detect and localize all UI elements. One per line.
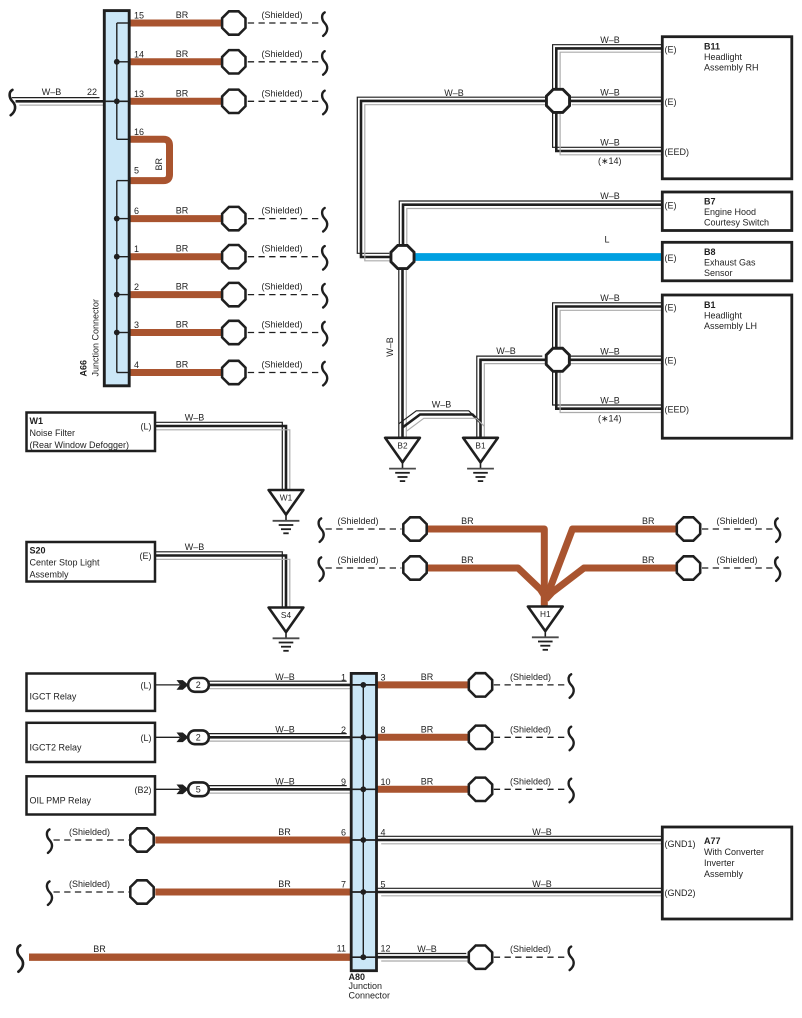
B11 box text — [665, 42, 759, 158]
svg-text:BR: BR — [642, 555, 655, 565]
svg-text:W–B: W–B — [600, 138, 620, 148]
wire W-B splice to B11 pin (E) middle — [564, 97, 670, 105]
wire BR A66 pin 6 to shield octagon — [130, 215, 224, 222]
svg-text:BR: BR — [421, 776, 434, 786]
svg-text:Headlight: Headlight — [704, 311, 743, 321]
labels A80 pin 10 right — [381, 776, 552, 787]
wire BR A66 pin 3 to shield octagon — [130, 329, 224, 336]
svg-text:(Shielded): (Shielded) — [262, 244, 303, 254]
component B8 Exhaust Gas Sensor — [662, 242, 792, 280]
svg-text:(L): (L) — [141, 681, 152, 691]
svg-text:W–B: W–B — [600, 293, 620, 303]
A80 connector name label — [349, 972, 391, 1001]
svg-text:Junction: Junction — [349, 981, 383, 991]
svg-text:W1: W1 — [30, 416, 44, 426]
labels A80 pin 7 left — [69, 879, 346, 890]
svg-text:W–B: W–B — [600, 88, 620, 98]
svg-text:W1: W1 — [280, 493, 293, 503]
wire BR shielded top-right to ground H1 — [545, 529, 678, 600]
component B1 Headlight Assembly LH — [662, 295, 792, 438]
svg-text:IGCT2 Relay: IGCT2 Relay — [30, 743, 83, 753]
wire BR shielded bottom-right to ground H1 — [546, 568, 678, 599]
svg-text:(E): (E) — [665, 303, 677, 313]
labels A66 pin 3 — [134, 320, 303, 331]
svg-text:Center Stop Light: Center Stop Light — [30, 558, 101, 568]
ground S4 — [269, 608, 304, 651]
A77 box text — [665, 836, 765, 898]
wire break squiggle bottom BR — [17, 945, 23, 971]
svg-text:(Rear Window Defogger): (Rear Window Defogger) — [30, 440, 130, 450]
labels A66 pin 2 — [134, 282, 303, 293]
svg-text:W–B: W–B — [417, 944, 437, 954]
svg-text:W–B: W–B — [532, 879, 552, 889]
label L wire B8 — [604, 235, 609, 245]
wire W-B trunk from splice to B11 splice — [357, 97, 556, 261]
svg-text:Connector: Connector — [349, 991, 391, 1001]
svg-text:(L): (L) — [141, 733, 152, 743]
svg-text:BR: BR — [461, 516, 474, 526]
svg-text:BR: BR — [176, 49, 189, 59]
junction connector A66 — [104, 11, 129, 386]
shield drain dashed continuation A66 pin 3 — [248, 322, 327, 346]
svg-text:W–B: W–B — [600, 347, 620, 357]
shield drain dashed continuation A66 pin 2 — [248, 284, 327, 308]
B1 box text — [665, 300, 758, 415]
svg-text:(EED): (EED) — [665, 147, 690, 157]
svg-text:W–B: W–B — [42, 87, 62, 97]
svg-text:L: L — [604, 235, 609, 245]
svg-text:B8: B8 — [704, 247, 716, 257]
inline connector arrow OIL PMP Relay — [177, 785, 189, 795]
wire W-B A80 pin 5 to A77 — [374, 888, 670, 896]
B7 box text — [665, 197, 770, 228]
svg-text:2: 2 — [341, 725, 346, 735]
shield drain dashed continuation A66 pin 15 — [248, 12, 327, 36]
component W1 Noise Filter — [27, 413, 156, 452]
wire BR A66 pin 4 to shield octagon — [130, 369, 224, 376]
svg-text:BR: BR — [176, 320, 189, 330]
shield drain dashed continuation A66 pin 4 — [248, 362, 327, 386]
svg-text:(Shielded): (Shielded) — [510, 944, 551, 954]
svg-text:BR: BR — [176, 244, 189, 254]
A66 internal bus (pins 5-4) — [116, 181, 118, 373]
svg-text:15: 15 — [134, 11, 144, 21]
wire BR A80 pin 3 to shield octagon — [377, 681, 470, 688]
svg-text:B1: B1 — [475, 440, 486, 450]
labels H1 row y=529 — [338, 516, 758, 526]
svg-text:BR: BR — [278, 827, 291, 837]
svg-text:W–B: W–B — [275, 776, 295, 786]
svg-text:BR: BR — [93, 944, 106, 954]
svg-text:8: 8 — [381, 725, 386, 735]
wire W-B IGCT2 Relay to A80 pin 2 — [200, 734, 354, 742]
labels A66 pin 6 — [134, 206, 303, 217]
svg-text:W–B: W–B — [385, 337, 395, 357]
shield braid octagon A66 pin 14 — [222, 50, 245, 73]
S20 box text — [30, 546, 152, 580]
svg-text:BR: BR — [176, 282, 189, 292]
IGCT Relay box text — [30, 681, 152, 702]
svg-text:(E): (E) — [665, 97, 677, 107]
svg-text:W–B: W–B — [185, 413, 205, 423]
shield braid octagon A80 pin 8 — [469, 726, 492, 749]
labels B1 wires — [598, 293, 622, 424]
svg-text:Exhaust Gas: Exhaust Gas — [704, 258, 756, 268]
svg-text:5: 5 — [196, 785, 201, 795]
wire W-B splice to B11 pin (E) top — [553, 45, 670, 99]
svg-text:W–B: W–B — [444, 88, 464, 98]
IGCT2 Relay box text — [30, 733, 152, 752]
svg-text:S20: S20 — [30, 546, 46, 556]
shield dashed continuation left y=568 — [319, 557, 402, 581]
svg-text:Assembly RH: Assembly RH — [704, 62, 759, 72]
svg-text:11: 11 — [337, 944, 346, 954]
shield braid octagon A66 pin 3 — [222, 321, 245, 344]
svg-text:BR: BR — [154, 158, 164, 171]
component OIL PMP Relay — [27, 776, 156, 814]
svg-text:(∗14): (∗14) — [598, 414, 622, 424]
ground H1 — [528, 607, 563, 650]
svg-text:W–B: W–B — [496, 346, 516, 356]
wire L (blue) splice to B8 pin (E) — [408, 253, 666, 261]
svg-text:BR: BR — [176, 10, 189, 20]
labels H1 row y=568 — [338, 555, 758, 565]
svg-text:6: 6 — [341, 828, 346, 838]
A80 pin crossing lines — [351, 685, 376, 957]
A66 bus junction dots — [114, 59, 120, 336]
labels wire IGCT2 Relay — [275, 724, 346, 735]
shield braid octagon A80 pin 6 — [130, 828, 153, 851]
labels A80 pin 11 — [93, 944, 346, 955]
inline connector cavity 2 of IGCT2 Relay — [188, 730, 209, 744]
junction connector A80 — [351, 673, 376, 970]
wire BR A66 pin 1 to shield octagon — [130, 253, 224, 260]
svg-text:5: 5 — [134, 166, 139, 176]
labels A66 pin 22 — [42, 87, 97, 97]
wire BR shield to A80 pin 6 — [155, 837, 350, 844]
splice octagon near B1 — [546, 348, 569, 371]
A80 internal bus — [362, 685, 364, 957]
svg-text:Inverter: Inverter — [704, 858, 735, 868]
svg-text:(Shielded): (Shielded) — [262, 206, 303, 216]
svg-text:BR: BR — [176, 88, 189, 98]
wire W-B to A66 pin 22 — [12, 98, 107, 106]
component B7 Engine Hood Courtesy Switch — [662, 192, 792, 231]
labels A66 pin 15 — [134, 10, 303, 21]
svg-text:BR: BR — [176, 206, 189, 216]
svg-text:(Shielded): (Shielded) — [69, 827, 110, 837]
A66 internal bus (pins 15-16) — [116, 23, 118, 139]
svg-text:(Shielded): (Shielded) — [717, 555, 758, 565]
svg-text:W–B: W–B — [600, 191, 620, 201]
A66 connector name label — [79, 299, 101, 377]
inline connector cavity 2 of IGCT Relay — [188, 678, 209, 692]
svg-text:Assembly LH: Assembly LH — [704, 321, 757, 331]
wire BR loop A66 pin 16 to pin 5 — [130, 139, 169, 180]
shield braid octagon H1 bottom-left — [403, 556, 426, 579]
OIL PMP Relay box text — [30, 785, 152, 805]
labels A80 pin 12 right — [381, 944, 552, 955]
inline connector arrow IGCT Relay — [177, 680, 189, 690]
A80 bus junction dots — [360, 682, 366, 960]
ground W1 — [269, 490, 304, 533]
wire W-B splice to B1 pin (E) top — [553, 303, 670, 356]
labels A66 pin 14 — [134, 49, 303, 60]
svg-text:B11: B11 — [704, 42, 720, 52]
svg-text:IGCT Relay: IGCT Relay — [30, 691, 77, 701]
shield dashed continuation A80 pin 8 — [494, 727, 574, 751]
shield braid octagon A80 pin 3 — [469, 673, 492, 696]
shield dashed continuation A80 pin 7 — [47, 881, 129, 905]
wire W-B splice to B1 pin (EED) — [553, 362, 670, 412]
labels wire IGCT Relay — [275, 672, 346, 683]
shield braid octagon A66 pin 2 — [222, 283, 245, 306]
svg-text:(E): (E) — [665, 356, 677, 366]
label W-B vertical to B2 — [385, 337, 395, 357]
labels A80 pin 6 left — [69, 827, 346, 838]
wire W-B splice down to ground B2 — [399, 262, 407, 445]
wire BR A80 pin 10 to shield octagon — [377, 786, 470, 793]
shield dashed continuation right y=568 — [702, 557, 780, 581]
svg-text:(E): (E) — [140, 551, 152, 561]
wire W-B A80 pin 4 to A77 — [374, 836, 670, 844]
svg-text:14: 14 — [134, 49, 144, 59]
wire OIL PMP Relay to connector symbol — [151, 788, 180, 790]
svg-text:(GND2): (GND2) — [665, 888, 696, 898]
labels A66 pin 13 — [134, 88, 303, 99]
component S20 Center Stop Light Assembly — [27, 542, 156, 582]
shield drain dashed continuation A66 pin 1 — [248, 246, 327, 270]
component B11 Headlight Assembly RH — [662, 37, 792, 179]
svg-text:13: 13 — [134, 89, 144, 99]
shield braid octagon A66 pin 4 — [222, 361, 245, 384]
svg-text:(GND1): (GND1) — [665, 839, 696, 849]
wire W-B S20 to ground S4 — [147, 552, 289, 616]
svg-text:A66: A66 — [79, 360, 89, 377]
A66 pin tap wires — [104, 23, 129, 373]
labels A66 pin 1 — [134, 244, 303, 255]
svg-text:(B2): (B2) — [134, 785, 151, 795]
svg-text:Courtesy Switch: Courtesy Switch — [704, 218, 769, 228]
component IGCT Relay — [27, 674, 156, 711]
svg-text:3: 3 — [381, 673, 386, 683]
shield dashed continuation right y=529 — [702, 518, 780, 542]
shield braid octagon H1 bottom-right — [677, 556, 700, 579]
svg-text:BR: BR — [461, 555, 474, 565]
component IGCT2 Relay — [27, 723, 156, 762]
ground B2 — [385, 438, 420, 481]
svg-text:(L): (L) — [141, 422, 152, 432]
wire BR shielded bottom-left to ground H1 — [424, 568, 544, 595]
svg-text:5: 5 — [381, 880, 386, 890]
svg-text:With Converter: With Converter — [704, 847, 764, 857]
wire W-B IGCT Relay to A80 pin 1 — [200, 681, 354, 689]
label W-B link — [432, 400, 452, 410]
wire IGCT Relay to connector symbol — [151, 684, 180, 686]
labels A80 pin 5 to A77 — [381, 879, 552, 890]
wire W-B OIL PMP Relay to A80 pin 9 — [200, 786, 354, 794]
labels A66 pins 16 and 5 — [134, 127, 164, 176]
wire W-B A80 pin 12 to shield octagon — [374, 954, 474, 962]
label W-B wire S20 — [185, 542, 205, 552]
wire W-B W1 to ground W1 — [147, 422, 289, 498]
wire W-B link between B2 and B1 grounds — [399, 411, 485, 432]
svg-text:W–B: W–B — [600, 35, 620, 45]
shield braid octagon H1 top-left — [403, 517, 426, 540]
shield dashed continuation A80 pin 3 — [494, 674, 574, 698]
labels A66 pin 4 — [134, 360, 303, 371]
svg-text:3: 3 — [134, 320, 139, 330]
wire BR A66 pin 15 to shield octagon — [130, 20, 224, 27]
labels A80 pin 3 right — [381, 672, 552, 683]
svg-text:(Shielded): (Shielded) — [510, 672, 551, 682]
svg-text:B7: B7 — [704, 197, 716, 207]
labels wire OIL PMP Relay — [275, 776, 346, 787]
svg-text:W–B: W–B — [275, 672, 295, 682]
svg-text:Assembly: Assembly — [30, 570, 70, 580]
svg-text:W–B: W–B — [185, 542, 205, 552]
wire BR shielded top-left to ground H1 — [424, 529, 544, 609]
wire BR A66 pin 13 to shield octagon — [130, 98, 224, 105]
labels A80 pin 4 to A77 — [381, 827, 552, 838]
wire BR A66 pin 14 to shield octagon — [130, 58, 224, 65]
shield braid octagon A66 pin 13 — [222, 90, 245, 113]
wire BR trunk to A80 pin 11 — [29, 954, 350, 961]
svg-text:(Shielded): (Shielded) — [510, 724, 551, 734]
svg-text:BR: BR — [642, 516, 655, 526]
shield braid octagon A66 pin 15 — [222, 11, 245, 34]
svg-text:Junction Connector: Junction Connector — [90, 299, 100, 377]
svg-text:W–B: W–B — [532, 827, 552, 837]
shield drain dashed continuation A66 pin 13 — [248, 91, 327, 115]
B8 box text — [665, 247, 757, 278]
svg-text:Sensor: Sensor — [704, 268, 733, 278]
inline connector cavity 5 of OIL PMP Relay — [188, 782, 209, 796]
svg-text:Noise Filter: Noise Filter — [30, 428, 76, 438]
svg-text:16: 16 — [134, 127, 144, 137]
svg-text:(E): (E) — [665, 201, 677, 211]
svg-text:(Shielded): (Shielded) — [262, 10, 303, 20]
svg-text:BR: BR — [421, 724, 434, 734]
shield braid octagon A66 pin 6 — [222, 207, 245, 230]
svg-text:Engine Hood: Engine Hood — [704, 207, 756, 217]
svg-text:BR: BR — [176, 360, 189, 370]
shield braid octagon A66 pin 1 — [222, 245, 245, 268]
labels A80 pin 8 right — [381, 724, 552, 735]
svg-text:(Shielded): (Shielded) — [510, 776, 551, 786]
svg-text:(Shielded): (Shielded) — [338, 516, 379, 526]
svg-text:(Shielded): (Shielded) — [262, 49, 303, 59]
svg-text:4: 4 — [381, 828, 386, 838]
wire BR shield to A80 pin 7 — [155, 889, 350, 896]
svg-text:B1: B1 — [704, 300, 716, 310]
inline connector arrow IGCT2 Relay — [177, 733, 189, 743]
svg-text:1: 1 — [341, 673, 346, 683]
wire BR A66 pin 2 to shield octagon — [130, 291, 224, 298]
svg-text:2: 2 — [196, 733, 201, 743]
svg-text:4: 4 — [134, 360, 139, 370]
svg-text:W–B: W–B — [432, 400, 452, 410]
svg-text:(E): (E) — [665, 253, 677, 263]
svg-text:A77: A77 — [704, 836, 721, 846]
label W-B wire B7 — [600, 191, 620, 201]
shield braid octagon H1 top-right — [677, 517, 700, 540]
svg-text:2: 2 — [196, 680, 201, 690]
svg-text:(Shielded): (Shielded) — [262, 360, 303, 370]
shield braid octagon A80 pin 10 — [469, 778, 492, 801]
shield braid octagon A80 pin 12 — [469, 946, 492, 969]
svg-text:(Shielded): (Shielded) — [338, 555, 379, 565]
svg-text:B2: B2 — [397, 440, 408, 450]
ground B1 — [463, 438, 498, 481]
svg-text:2: 2 — [134, 282, 139, 292]
svg-text:W–B: W–B — [600, 396, 620, 406]
svg-text:BR: BR — [278, 879, 291, 889]
svg-text:Headlight: Headlight — [704, 52, 743, 62]
svg-text:(Shielded): (Shielded) — [262, 88, 303, 98]
svg-text:H1: H1 — [540, 609, 551, 619]
wire W-B splice to B11 pin (EED) — [553, 103, 670, 155]
svg-text:1: 1 — [134, 244, 139, 254]
shield dashed continuation A80 pin 12 — [494, 947, 574, 971]
svg-text:OIL PMP Relay: OIL PMP Relay — [30, 796, 92, 806]
component A77 With Converter Inverter Assembly — [662, 827, 792, 919]
svg-text:(EED): (EED) — [665, 405, 690, 415]
svg-text:(Shielded): (Shielded) — [717, 516, 758, 526]
svg-text:12: 12 — [381, 944, 391, 954]
svg-text:(Shielded): (Shielded) — [262, 320, 303, 330]
svg-text:6: 6 — [134, 206, 139, 216]
splice octagon center — [391, 245, 414, 268]
svg-text:10: 10 — [381, 777, 391, 787]
svg-text:9: 9 — [341, 777, 346, 787]
label W-B wire W1 — [185, 413, 205, 423]
label W-B B1 feed — [496, 346, 516, 356]
wire W-B splice to B7 pin (E) — [399, 201, 670, 253]
wire break squiggle left W-B — [10, 90, 16, 115]
labels B11 wires — [444, 35, 621, 166]
W1 box text — [30, 416, 152, 450]
svg-text:BR: BR — [421, 672, 434, 682]
svg-text:22: 22 — [87, 87, 97, 97]
shield dashed continuation left y=529 — [319, 518, 402, 542]
A66 pin 22 crossing line — [103, 100, 130, 102]
wire W-B from B1 splice to ground B1 — [477, 356, 550, 445]
shield dashed continuation A80 pin 10 — [494, 779, 574, 803]
shield drain dashed continuation A66 pin 14 — [248, 51, 327, 75]
wire BR A80 pin 8 to shield octagon — [377, 734, 470, 741]
svg-text:(Shielded): (Shielded) — [69, 879, 110, 889]
svg-text:(E): (E) — [665, 45, 677, 55]
shield braid octagon A80 pin 7 — [130, 880, 153, 903]
wire W-B splice to B1 pin (E) middle — [562, 356, 670, 364]
svg-text:W–B: W–B — [275, 724, 295, 734]
shield drain dashed continuation A66 pin 6 — [248, 208, 327, 232]
shield dashed continuation A80 pin 6 — [47, 829, 129, 853]
wire IGCT2 Relay to connector symbol — [151, 736, 180, 738]
svg-text:(Shielded): (Shielded) — [262, 282, 303, 292]
svg-text:Assembly: Assembly — [704, 869, 744, 879]
splice octagon near B11 — [546, 89, 569, 112]
svg-text:S4: S4 — [281, 610, 292, 620]
svg-text:(∗14): (∗14) — [598, 156, 622, 166]
svg-text:7: 7 — [341, 880, 346, 890]
